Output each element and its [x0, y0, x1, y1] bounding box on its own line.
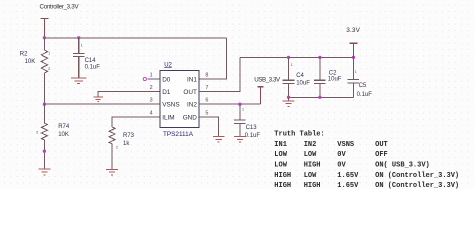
svg-text:LOW HIGH 0V ON( US: LOW HIGH 0V ON( USB_3.3V) — [274, 162, 429, 170]
svg-text:U2: U2 — [164, 62, 172, 68]
power port 3.3V — [346, 27, 360, 58]
wire IN1 riser — [199, 38, 226, 79]
truth table text — [274, 131, 459, 191]
resistor R2 — [20, 38, 50, 104]
svg-text:3.3V: 3.3V — [346, 27, 360, 34]
wire OUT to rail2 — [199, 57, 240, 91]
svg-text:3: 3 — [150, 98, 153, 104]
pin numbers left — [150, 72, 153, 116]
svg-text:5: 5 — [205, 110, 208, 116]
svg-text:C5: C5 — [359, 83, 367, 89]
svg-text:1k: 1k — [123, 141, 130, 147]
pin labels right IN1 OUT IN2 GND — [183, 76, 198, 121]
svg-text:1: 1 — [355, 70, 357, 74]
svg-text:HIGH LOW 1.65V ON (Co: HIGH LOW 1.65V ON (Controller_3.3V) — [274, 172, 459, 180]
node R74 pin2 dot — [43, 150, 46, 153]
svg-text:0.1uF: 0.1uF — [245, 133, 261, 139]
ground for C13 — [234, 137, 246, 143]
wire IN2 net — [199, 103, 261, 105]
svg-text:IN1 IN2 VSNS OUT: IN1 IN2 VSNS OUT — [274, 141, 387, 149]
svg-text:IN1: IN1 — [187, 76, 197, 83]
svg-text:Truth Table:: Truth Table: — [274, 131, 324, 139]
svg-text:10uF: 10uF — [296, 81, 310, 87]
svg-text:C13: C13 — [246, 125, 258, 131]
svg-text:8: 8 — [205, 72, 208, 78]
svg-text:6: 6 — [205, 98, 208, 104]
wire ILIM to R73 — [112, 117, 160, 127]
svg-text:GND: GND — [183, 114, 198, 121]
svg-text:C4: C4 — [296, 73, 304, 79]
node junction R2-R74-VSNS — [43, 103, 46, 106]
capacitor C13 — [234, 104, 260, 139]
svg-text:10uF: 10uF — [328, 77, 342, 83]
wire GND pin5 — [199, 117, 219, 137]
resistor R73 — [109, 127, 135, 169]
svg-text:R73: R73 — [123, 133, 135, 139]
node junction rail1-R2 — [43, 36, 46, 39]
svg-text:0.1uF: 0.1uF — [85, 64, 101, 70]
svg-text:7: 7 — [205, 85, 208, 91]
wire rail1 Controller_3.3V net — [44, 37, 226, 39]
power port Controller_3.3V — [40, 4, 80, 38]
node junction rail2-3.3V — [352, 56, 355, 59]
svg-text:C14: C14 — [85, 58, 97, 64]
ground for R74 — [39, 169, 51, 175]
svg-text:10K: 10K — [58, 132, 69, 138]
IC U2 TPS2111A — [160, 62, 199, 138]
pin labels left D0 D1 VSNS ILIM — [162, 76, 179, 121]
svg-text:2: 2 — [36, 131, 38, 135]
svg-text:1: 1 — [242, 107, 244, 111]
svg-text:LOW LOW 0V OFF: LOW LOW 0V OFF — [274, 151, 387, 159]
capacitor C4 — [283, 57, 311, 97]
power port USB_3.3V — [254, 77, 281, 105]
resistor R74 — [36, 104, 70, 169]
ground for D1 — [93, 97, 103, 101]
svg-text:TPS2111A: TPS2111A — [163, 131, 194, 138]
svg-text:D0: D0 — [162, 76, 171, 83]
node junction rail3-C4 — [287, 96, 290, 99]
ground for pin5 — [213, 137, 225, 143]
svg-text:2: 2 — [116, 145, 118, 149]
svg-text:USB_3.3V: USB_3.3V — [254, 77, 281, 84]
ground for C14 — [71, 78, 87, 84]
capacitor C5 — [348, 57, 373, 98]
ground for C4 rail — [283, 97, 295, 106]
svg-text:HIGH HIGH 1.65V ON (Co: HIGH HIGH 1.65V ON (Controller_3.3V) — [274, 182, 459, 189]
svg-text:1: 1 — [48, 52, 50, 56]
wire VSNS net — [44, 103, 159, 105]
ground for R73 — [106, 169, 118, 175]
svg-text:1: 1 — [81, 43, 83, 47]
pin numbers right — [205, 72, 208, 116]
svg-text:1: 1 — [291, 63, 293, 67]
svg-text:VSNS: VSNS — [162, 102, 179, 109]
pin 1 D0 stub with no-connect circle — [143, 77, 160, 80]
capacitor C2 — [314, 57, 342, 97]
svg-text:Controller_3.3V: Controller_3.3V — [40, 4, 80, 11]
node junction rail3-C2 — [318, 96, 321, 99]
node junction rail2-C2 — [318, 56, 321, 59]
svg-text:R2: R2 — [20, 52, 28, 58]
svg-text:2: 2 — [48, 67, 50, 71]
svg-text:10K: 10K — [25, 59, 36, 65]
wire D1 to ground — [98, 92, 160, 97]
node junction rail2-C4 — [287, 56, 290, 59]
svg-text:C2: C2 — [329, 70, 337, 76]
node junction IN2-C13 — [238, 103, 241, 106]
wire rail3 cap ground net — [289, 96, 354, 98]
svg-text:R74: R74 — [58, 124, 70, 130]
svg-text:1: 1 — [150, 72, 153, 78]
capacitor C14 — [73, 38, 100, 78]
wire rail2 3.3V net — [240, 56, 353, 58]
svg-text:0.1uF: 0.1uF — [357, 92, 373, 98]
svg-text:ILIM: ILIM — [162, 114, 174, 121]
svg-text:OUT: OUT — [183, 89, 197, 96]
svg-text:4: 4 — [150, 110, 153, 116]
node junction rail1-C14 — [77, 36, 80, 39]
svg-text:2: 2 — [150, 85, 153, 91]
svg-text:IN2: IN2 — [187, 102, 197, 109]
svg-text:D1: D1 — [162, 89, 171, 96]
